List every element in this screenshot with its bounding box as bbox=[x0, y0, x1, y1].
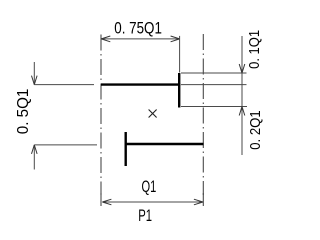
dimension line 0.5Q1 upper arrow bbox=[32, 62, 38, 85]
extension line 0.5Q1 top (from top plate) bbox=[34, 84, 94, 86]
center line left (left electrode axis) bbox=[100, 35, 102, 207]
center mark X bbox=[149, 110, 157, 118]
dimension line 0.1Q1 / 0.2Q1 (shared vertical) bbox=[239, 36, 245, 155]
extension line for 0.75Q1 right end bbox=[179, 36, 181, 73]
svg-text:0. 5Q1: 0. 5Q1 bbox=[15, 88, 32, 134]
label 0.75Q1 bbox=[114, 20, 162, 38]
label Q1 bbox=[142, 177, 157, 196]
top electrode end bar bbox=[178, 73, 180, 108]
bottom electrode plate bbox=[125, 143, 204, 145]
top electrode plate bbox=[101, 83, 180, 85]
label 0.5Q1 (rotated) bbox=[15, 88, 32, 134]
label P1 bbox=[138, 206, 152, 225]
svg-text:Q1: Q1 bbox=[142, 177, 157, 196]
svg-text:P1: P1 bbox=[138, 206, 152, 225]
svg-text:0. 2Q1: 0. 2Q1 bbox=[247, 110, 264, 150]
extension line right middle (plate level) bbox=[181, 84, 247, 86]
label 0.2Q1 (rotated) bbox=[247, 110, 264, 150]
dimension line 0.5Q1 lower arrow bbox=[32, 145, 38, 170]
label 0.1Q1 (rotated) bbox=[246, 30, 263, 69]
svg-text:0. 75Q1: 0. 75Q1 bbox=[114, 20, 162, 38]
extension line right bottom (bottom of end bar) bbox=[181, 106, 247, 108]
bottom electrode end bar bbox=[124, 132, 126, 166]
extension line right top (top of end bar) bbox=[181, 72, 247, 74]
dimension line Q1 / P1 bbox=[102, 199, 202, 205]
dimension line 0.75Q1 bbox=[101, 36, 179, 42]
svg-text:0. 1Q1: 0. 1Q1 bbox=[246, 30, 263, 69]
center line right (right electrode axis) bbox=[202, 34, 204, 206]
extension line 0.5Q1 bottom (from bottom plate) bbox=[34, 144, 97, 146]
